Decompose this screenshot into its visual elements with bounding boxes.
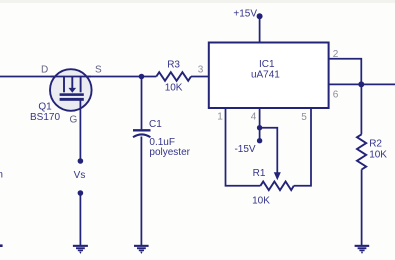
svg-text:R2: R2 <box>369 139 382 150</box>
wire output node to R2 <box>360 84 362 134</box>
svg-text:uA741: uA741 <box>251 69 280 80</box>
svg-text:G: G <box>70 115 78 126</box>
capacitor C1 <box>133 130 151 137</box>
wire R2 to ground <box>361 170 363 246</box>
svg-text:10K: 10K <box>165 82 183 93</box>
wiper arrow of R1 <box>274 172 281 180</box>
node Vs top terminal <box>78 158 84 164</box>
node Vs bottom terminal <box>78 190 84 196</box>
wire junction to C1 <box>141 77 143 130</box>
resistor R2 <box>357 134 366 169</box>
wire gate to Vs <box>79 101 81 162</box>
wire pin2 to output node <box>329 59 362 85</box>
node junction S-C1 <box>139 74 145 80</box>
svg-text:6: 6 <box>333 90 339 101</box>
svg-text:R3: R3 <box>167 59 180 70</box>
svg-text:n: n <box>0 170 3 181</box>
svg-text:C1: C1 <box>149 119 162 130</box>
ground under C1 <box>134 245 149 254</box>
svg-text:1: 1 <box>217 111 223 122</box>
svg-text:3: 3 <box>198 65 204 76</box>
wire Vs bottom to ground <box>79 193 81 245</box>
wire +15V to IC top <box>259 16 261 42</box>
svg-text:4: 4 <box>251 111 257 122</box>
node -15V terminal <box>257 138 262 143</box>
ground cut at left edge <box>0 244 3 247</box>
ground under Vs <box>73 245 88 254</box>
svg-text:-15V: -15V <box>234 144 255 155</box>
resistor R3 <box>156 72 191 81</box>
svg-text:polyester: polyester <box>149 147 190 158</box>
ground under R2 <box>355 245 370 254</box>
wire R1 right to pin5 <box>294 108 311 186</box>
wire pin4 down <box>259 108 261 128</box>
node +15V terminal <box>257 13 263 19</box>
wire C1 to ground <box>140 137 142 246</box>
wire main input D-S-R3-pin3 horizontal <box>0 76 209 78</box>
svg-text:Vs: Vs <box>74 170 86 181</box>
node output junction <box>358 81 364 87</box>
svg-text:R1: R1 <box>253 168 266 179</box>
op-amp IC1 uA741 <box>209 43 329 109</box>
wire pin1 down to R1 left <box>226 108 261 186</box>
svg-text:5: 5 <box>301 112 307 123</box>
svg-text:BS170: BS170 <box>30 112 60 123</box>
svg-text:+15V: +15V <box>233 8 257 19</box>
svg-text:10K: 10K <box>369 150 387 161</box>
svg-text:D: D <box>41 64 48 75</box>
wire pin4 junction to -15V terminal <box>259 128 261 141</box>
node pin4 junction <box>257 125 262 130</box>
transistor Q1 BS170 MOSFET <box>50 69 92 111</box>
svg-text:10K: 10K <box>252 195 270 206</box>
wire pin6 output to right edge <box>329 83 395 85</box>
wire wiper branch <box>260 128 278 173</box>
resistor R1 potentiometer <box>260 182 293 191</box>
svg-text:S: S <box>95 64 102 75</box>
